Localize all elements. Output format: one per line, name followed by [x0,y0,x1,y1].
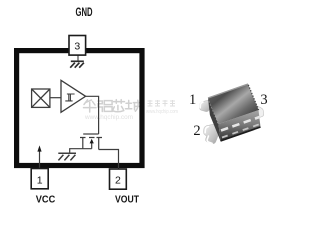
package bottom dark edge [221,127,261,141]
svg-text:2: 2 [193,123,200,139]
watermark 华强芯城 (center, light gray) [84,100,140,112]
hall sensor element X1 [32,89,50,107]
channel bars [80,137,102,139]
svg-text:1: 1 [189,92,196,108]
svg-text:www.hqchip.com: www.hqchip.com [84,114,133,121]
package pin 1 lead [199,100,211,112]
wire sensor to amp [50,97,61,99]
svg-text:VOUT: VOUT [115,194,139,205]
package front face stripe 1 [221,117,260,131]
svg-text:GND: GND [76,5,93,19]
body arrow [90,139,94,144]
drain lead [98,138,100,150]
pin 2 box [110,169,127,189]
watermark tiny row (right of square) [148,100,176,107]
IC body outline (big square) [17,51,142,166]
package pin 2 lead [204,124,220,144]
VCC arrow wire [39,148,41,169]
wire amp output to gate [86,96,99,134]
wire source to ground [70,149,92,153]
package pin 3 lead [253,105,264,118]
source lead [82,138,84,149]
svg-text:www.hqchip.com: www.hqchip.com [145,109,178,115]
package top edge highlight [208,84,248,98]
gate plate [83,133,98,135]
svg-text:3: 3 [260,92,267,108]
package left side face [208,98,221,141]
package top face [208,84,259,124]
package top-right serrated edge [248,85,258,110]
svg-text:3: 3 [74,40,80,52]
svg-text:2: 2 [115,175,121,187]
op-amp U1 (schmitt trigger) [61,80,86,112]
package left side serrations [209,102,218,124]
svg-text:1: 1 [37,174,43,186]
transistor Q1 (output MOSFET) [80,134,102,150]
package front face [219,110,261,141]
svg-text:VCC: VCC [36,194,56,205]
pin 1 box [31,169,48,189]
pin 3 wire to ground [77,55,79,60]
body lead with arrow [91,143,93,149]
hysteresis symbol [65,94,74,101]
wire drain to pin 2 [99,150,119,170]
ground (under pin 3) [70,61,84,67]
package front face stripe 2 [222,124,260,138]
ground (near MOSFET) [58,153,76,160]
pin 3 box [69,36,86,56]
